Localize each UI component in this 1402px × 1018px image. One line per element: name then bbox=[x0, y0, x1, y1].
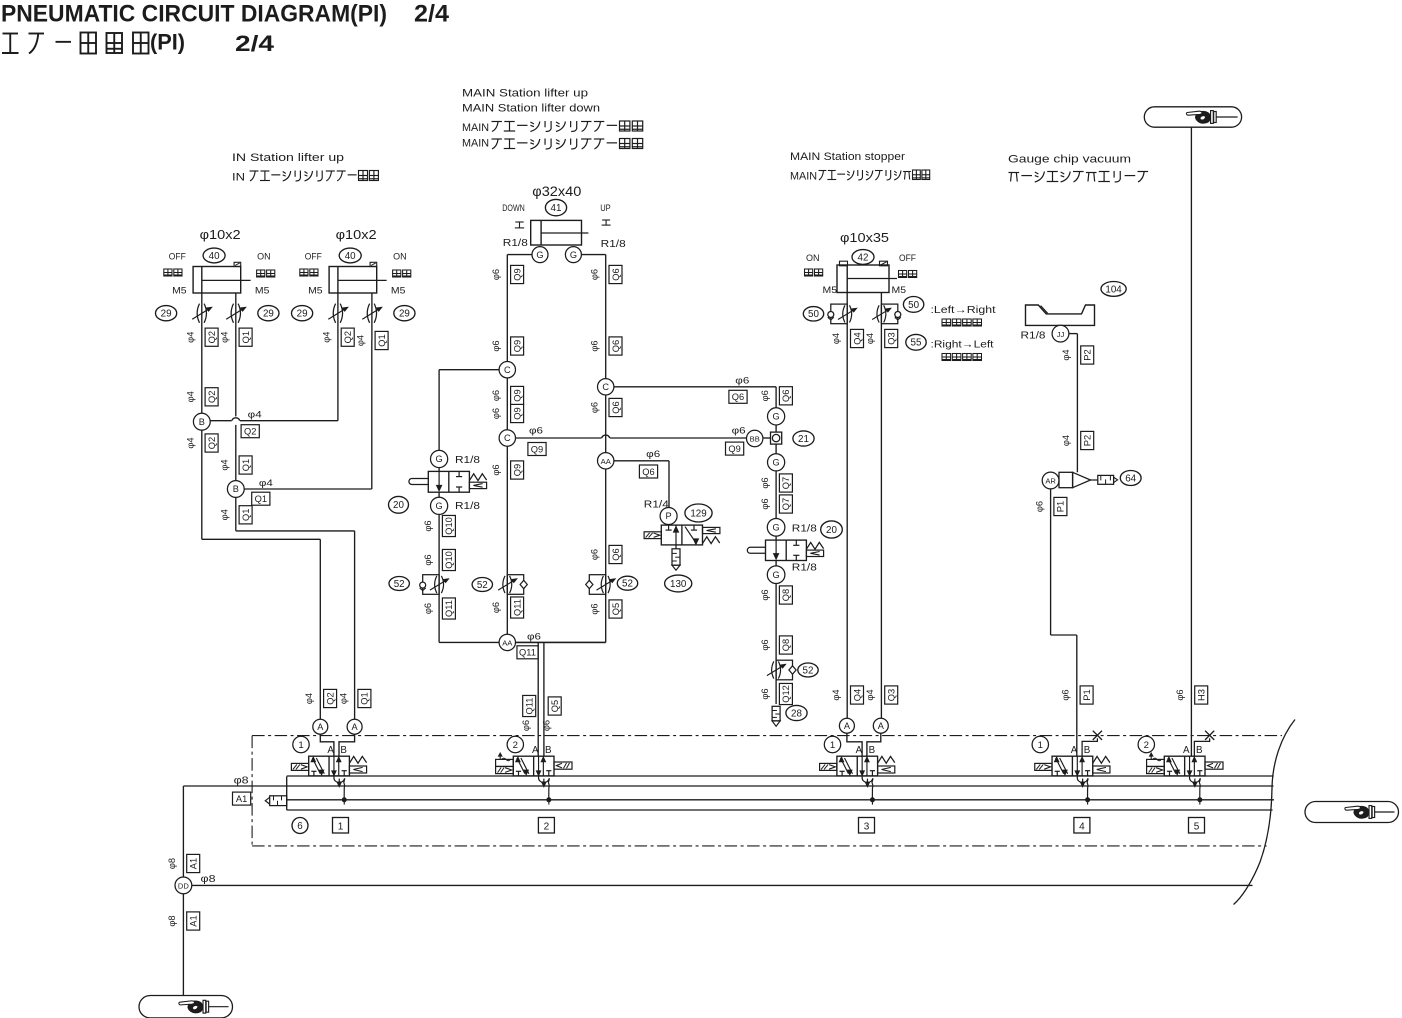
svg-text:φ4: φ4 bbox=[865, 333, 875, 344]
wire bbox=[183, 785, 1273, 787]
node G bbox=[565, 247, 581, 263]
wire bbox=[235, 425, 237, 481]
wire bbox=[371, 293, 373, 340]
svg-text:MAIN Station stopper: MAIN Station stopper bbox=[790, 151, 905, 163]
svg-text:B: B bbox=[233, 484, 239, 494]
tube label Q6 bbox=[609, 265, 622, 283]
node G bbox=[768, 454, 785, 471]
tube label Q8 bbox=[779, 586, 792, 604]
svg-text:Q1: Q1 bbox=[360, 692, 370, 704]
tube label Q9 bbox=[511, 337, 524, 355]
wire bbox=[605, 255, 607, 379]
wire bbox=[775, 387, 777, 408]
wire bbox=[614, 386, 776, 388]
muffler 130 bbox=[672, 545, 680, 570]
svg-text:Q11: Q11 bbox=[444, 600, 454, 617]
svg-text:φ6: φ6 bbox=[732, 426, 746, 437]
svg-text:φ4: φ4 bbox=[1061, 435, 1071, 446]
svg-text:Q9: Q9 bbox=[531, 444, 543, 454]
tube label Q6 bbox=[609, 545, 622, 563]
valve outlet to rail bbox=[1077, 776, 1089, 805]
tube φ6 Q10 bbox=[423, 520, 433, 531]
svg-text:Q11: Q11 bbox=[519, 648, 536, 658]
svg-text:P: P bbox=[666, 511, 672, 521]
tube label Q1 bbox=[239, 456, 252, 474]
svg-text:φ4: φ4 bbox=[248, 410, 263, 421]
flow control valve 50 bbox=[872, 304, 901, 324]
shuttle valve node bbox=[771, 432, 782, 444]
svg-text:Q12: Q12 bbox=[781, 685, 791, 703]
tube label Q7 bbox=[779, 474, 792, 492]
solenoid valve 129 bbox=[644, 525, 720, 545]
svg-text:φ10x35: φ10x35 bbox=[840, 230, 889, 245]
svg-text:φ4: φ4 bbox=[1061, 349, 1071, 360]
svg-text:φ6: φ6 bbox=[423, 603, 433, 614]
wire bbox=[516, 437, 602, 439]
return spring bbox=[1093, 756, 1110, 763]
node G bbox=[431, 497, 448, 514]
svg-text:φ6: φ6 bbox=[760, 477, 770, 488]
label circle (55) bbox=[906, 334, 926, 350]
svg-text:M5: M5 bbox=[172, 286, 187, 297]
svg-text:Q6: Q6 bbox=[732, 392, 744, 402]
svg-text:B: B bbox=[869, 745, 876, 756]
svg-text:φ6: φ6 bbox=[521, 720, 531, 731]
node G bbox=[768, 408, 785, 425]
tube φ4 Q4 bbox=[831, 333, 841, 344]
tube φ6 Q9 bbox=[491, 269, 501, 280]
junction bbox=[870, 798, 874, 802]
tube φ6 Q7 bbox=[760, 498, 770, 509]
svg-text:40: 40 bbox=[345, 251, 356, 262]
pilot solenoid bbox=[1147, 753, 1165, 773]
svg-text:φ6: φ6 bbox=[760, 589, 770, 600]
wire bbox=[506, 255, 508, 362]
wire bbox=[605, 469, 607, 642]
node A bbox=[313, 719, 328, 734]
wire bbox=[235, 340, 237, 416]
svg-text:DOWN: DOWN bbox=[502, 203, 525, 214]
tube label Q1 bbox=[375, 331, 388, 349]
svg-text:20: 20 bbox=[826, 525, 837, 536]
wire bbox=[202, 538, 320, 540]
plugged port (X) above valve bbox=[1194, 731, 1214, 757]
wire bbox=[439, 641, 499, 643]
title line 2 (Japanese) bbox=[3, 33, 19, 35]
svg-text:5: 5 bbox=[1194, 822, 1200, 833]
tube φ6 Q8 bbox=[760, 639, 770, 650]
svg-text:Q1: Q1 bbox=[241, 509, 251, 521]
tube φ6 P1 bbox=[1034, 501, 1044, 512]
svg-text:A1: A1 bbox=[188, 915, 198, 926]
svg-text:φ6: φ6 bbox=[590, 603, 600, 614]
flow control valve 52 bbox=[767, 660, 796, 680]
svg-text:Q9: Q9 bbox=[512, 389, 522, 401]
tube φ6 Q6 bbox=[590, 402, 600, 413]
svg-text:UP: UP bbox=[600, 203, 611, 214]
svg-text:φ4: φ4 bbox=[356, 335, 366, 346]
pilot bbox=[554, 762, 572, 769]
svg-text:φ4: φ4 bbox=[831, 689, 841, 700]
svg-text:Q4: Q4 bbox=[852, 332, 862, 344]
wire bbox=[182, 786, 184, 877]
wire bbox=[506, 378, 508, 430]
svg-text:φ6: φ6 bbox=[760, 639, 770, 650]
tube φ4 Q2 bbox=[186, 391, 196, 402]
label circle (129) bbox=[685, 504, 712, 522]
label circle (52) bbox=[617, 576, 637, 590]
label circle (64) bbox=[1120, 471, 1141, 486]
tube label Q8 bbox=[779, 636, 792, 654]
node AA bbox=[499, 634, 515, 650]
svg-text:DD: DD bbox=[178, 882, 189, 891]
svg-text:AA: AA bbox=[601, 457, 612, 466]
tube φ4 Q3 bbox=[865, 333, 875, 344]
svg-text:φ4: φ4 bbox=[259, 478, 274, 489]
port letters A B bbox=[1071, 745, 1091, 756]
manual valve 20 (stopper) bbox=[747, 540, 823, 560]
wire bbox=[763, 437, 770, 439]
svg-text:Q1: Q1 bbox=[255, 494, 267, 504]
svg-text:φ4: φ4 bbox=[186, 332, 196, 343]
tube φ6 Q11 bbox=[491, 602, 501, 613]
wire bbox=[614, 460, 669, 462]
svg-text:φ8: φ8 bbox=[167, 915, 177, 926]
node G bbox=[767, 519, 785, 537]
wire bbox=[439, 369, 499, 371]
svg-text:OFF: OFF bbox=[305, 252, 322, 263]
svg-text:64: 64 bbox=[1125, 473, 1136, 484]
svg-text:A: A bbox=[844, 721, 851, 731]
svg-text:A: A bbox=[317, 722, 324, 732]
tube label Q9 bbox=[528, 443, 546, 456]
svg-text:29: 29 bbox=[263, 309, 274, 320]
svg-text:M5: M5 bbox=[255, 286, 270, 297]
svg-text:P1: P1 bbox=[1056, 501, 1066, 512]
svg-text:G: G bbox=[436, 454, 443, 464]
tube label Q10 bbox=[442, 515, 455, 536]
svg-text:Q8: Q8 bbox=[781, 639, 791, 651]
pilot solenoid bbox=[496, 753, 514, 773]
tube φ4 Q2 bbox=[186, 437, 196, 448]
svg-text:C: C bbox=[602, 382, 609, 392]
port letters A B bbox=[327, 745, 347, 756]
svg-text:φ10x2: φ10x2 bbox=[200, 227, 241, 242]
node JJ bbox=[1052, 325, 1069, 342]
node G bbox=[532, 247, 548, 263]
tube label Q6 bbox=[609, 398, 622, 416]
label circle (130) bbox=[665, 575, 692, 592]
tube label Q11 bbox=[517, 646, 538, 659]
wire bbox=[775, 584, 777, 705]
svg-text:JJ: JJ bbox=[1057, 330, 1065, 339]
svg-text:3: 3 bbox=[864, 822, 870, 833]
tube label P2 bbox=[1081, 431, 1094, 449]
svg-text:φ6: φ6 bbox=[590, 549, 600, 560]
solenoid valve station 4 bbox=[1035, 756, 1110, 776]
flow control valve 50 bbox=[828, 304, 856, 324]
svg-text:G: G bbox=[773, 523, 780, 533]
tube label A1 bbox=[187, 912, 200, 930]
tube φ6 P1 bbox=[1061, 689, 1071, 700]
svg-text:φ8: φ8 bbox=[167, 858, 177, 869]
svg-text:B: B bbox=[1196, 745, 1203, 756]
station id circle (2) bbox=[1138, 736, 1154, 752]
tube φ4 Q1 bbox=[220, 459, 230, 470]
svg-text:2/4: 2/4 bbox=[414, 1, 449, 28]
wire bbox=[507, 254, 532, 256]
svg-text:R1/8: R1/8 bbox=[1021, 331, 1047, 342]
svg-text:H3: H3 bbox=[1197, 689, 1207, 701]
wire bbox=[880, 293, 882, 719]
wire bbox=[337, 340, 339, 421]
svg-text:Q9: Q9 bbox=[512, 268, 522, 280]
svg-text:φ6: φ6 bbox=[590, 340, 600, 351]
label circle (41) bbox=[545, 199, 566, 215]
svg-text:φ6: φ6 bbox=[760, 498, 770, 509]
svg-text:φ6: φ6 bbox=[1175, 689, 1185, 700]
svg-text:φ32x40: φ32x40 bbox=[532, 184, 581, 199]
tube φ4 Q1 bbox=[220, 332, 230, 343]
solenoid bbox=[820, 763, 837, 770]
wire jump over B1 line bbox=[232, 418, 240, 421]
svg-text:52: 52 bbox=[803, 665, 814, 676]
svg-text:A: A bbox=[352, 722, 359, 732]
section label Japanese bbox=[1009, 171, 1149, 182]
tube label Q2 bbox=[205, 434, 218, 452]
tube label Q6 bbox=[609, 337, 622, 355]
muffler 28 bbox=[772, 706, 780, 726]
tube label Q10 bbox=[442, 549, 455, 570]
svg-text:P2: P2 bbox=[1083, 349, 1093, 360]
svg-text:MAIN Station lifter up: MAIN Station lifter up bbox=[462, 88, 588, 100]
svg-text:MAIN: MAIN bbox=[462, 122, 489, 134]
svg-text:P2: P2 bbox=[1083, 435, 1093, 446]
label circle (50) bbox=[803, 307, 823, 321]
label circle (104) bbox=[1101, 282, 1126, 297]
svg-text:MAIN Station lifter down: MAIN Station lifter down bbox=[462, 103, 600, 115]
svg-text::Right→Left: :Right→Left bbox=[931, 340, 994, 351]
svg-text:M5: M5 bbox=[823, 285, 838, 296]
solenoid bbox=[291, 763, 308, 770]
tube φ6 Q9 bbox=[491, 340, 501, 351]
station id circle (2) bbox=[507, 736, 523, 752]
tube label Q6 bbox=[779, 387, 792, 405]
svg-text:M5: M5 bbox=[892, 285, 907, 296]
svg-text:IN: IN bbox=[232, 172, 245, 184]
svg-text:R1/8: R1/8 bbox=[455, 501, 481, 512]
wire jump over right chain bbox=[602, 435, 610, 438]
svg-text:Q9: Q9 bbox=[728, 444, 740, 454]
svg-text:G: G bbox=[773, 412, 780, 422]
svg-text:Q1: Q1 bbox=[241, 459, 251, 471]
wire bbox=[775, 425, 777, 432]
node C bbox=[598, 379, 614, 395]
pilot bbox=[1205, 762, 1223, 769]
manifold end plug bbox=[265, 796, 286, 806]
node A bbox=[839, 718, 854, 733]
wire bbox=[1076, 334, 1078, 473]
wire bbox=[543, 642, 545, 756]
tube label Q9 bbox=[511, 461, 524, 479]
wire bbox=[1051, 634, 1077, 636]
svg-text:Q6: Q6 bbox=[611, 401, 621, 413]
svg-text:R1/8: R1/8 bbox=[792, 563, 818, 574]
svg-text:Q11: Q11 bbox=[525, 698, 535, 715]
svg-text:Q6: Q6 bbox=[611, 268, 621, 280]
svg-text:φ6: φ6 bbox=[491, 340, 501, 351]
svg-text:A1: A1 bbox=[188, 858, 198, 869]
tube label P1 bbox=[1080, 686, 1093, 704]
svg-text:Q1: Q1 bbox=[241, 331, 251, 343]
wire bbox=[244, 488, 372, 490]
valve outlet to rail bbox=[862, 776, 874, 805]
wire bbox=[775, 471, 777, 518]
svg-text:Q5: Q5 bbox=[611, 603, 621, 615]
tube φ4 Q4 bbox=[831, 689, 841, 700]
tube φ4 Q2 bbox=[322, 332, 332, 343]
flow control valve 52 (pilot) bbox=[420, 575, 448, 595]
node AA bbox=[598, 453, 614, 469]
svg-text:130: 130 bbox=[670, 579, 687, 590]
vacuum pad 104 bbox=[1026, 305, 1095, 325]
wire bbox=[240, 420, 338, 422]
svg-text:ON: ON bbox=[257, 252, 271, 263]
svg-text:Q6: Q6 bbox=[611, 548, 621, 560]
tube label Q11 bbox=[523, 695, 536, 716]
node G bbox=[767, 566, 785, 584]
svg-text:29: 29 bbox=[297, 309, 308, 320]
svg-text:52: 52 bbox=[394, 579, 405, 590]
svg-text:MAIN: MAIN bbox=[462, 138, 489, 150]
svg-text:Q2: Q2 bbox=[244, 427, 256, 437]
svg-text:Q11: Q11 bbox=[512, 599, 522, 616]
tube label Q7 bbox=[779, 495, 792, 513]
svg-text:φ4: φ4 bbox=[220, 509, 230, 520]
svg-text:1: 1 bbox=[1038, 740, 1043, 751]
station id circle (1) bbox=[1032, 736, 1048, 752]
svg-text:OFF: OFF bbox=[899, 253, 916, 264]
label circle (52) bbox=[798, 663, 818, 677]
tube φ4 Q2 bbox=[304, 693, 314, 704]
wire bbox=[775, 561, 777, 566]
reference pointer (right) bbox=[1305, 802, 1399, 823]
svg-text:A: A bbox=[532, 745, 539, 756]
svg-text:4: 4 bbox=[1079, 822, 1085, 833]
wire: A into valve1 port A bbox=[320, 734, 334, 756]
svg-text:φ6: φ6 bbox=[590, 402, 600, 413]
tube size phi6 pair bbox=[521, 720, 551, 731]
wire bbox=[354, 531, 356, 719]
svg-text:φ4: φ4 bbox=[865, 689, 875, 700]
wire bbox=[236, 530, 355, 532]
tube label Q11 bbox=[511, 597, 524, 618]
tube φ4 P2 bbox=[1061, 435, 1071, 446]
label circle (29) bbox=[156, 306, 177, 321]
flow control valve bbox=[226, 304, 245, 323]
svg-text:Q2: Q2 bbox=[207, 391, 217, 403]
svg-text:φ4: φ4 bbox=[322, 332, 332, 343]
wire bbox=[371, 340, 373, 489]
svg-text:C: C bbox=[504, 365, 511, 375]
svg-text:Gauge chip vacuum: Gauge chip vacuum bbox=[1008, 154, 1131, 166]
return spring bbox=[878, 756, 895, 763]
wire bbox=[192, 884, 1253, 886]
manifold base block bbox=[287, 776, 1274, 810]
svg-text:129: 129 bbox=[690, 508, 706, 519]
regulator / check valve 64 bbox=[1059, 472, 1118, 487]
svg-text:29: 29 bbox=[161, 309, 172, 320]
return spring bbox=[349, 756, 366, 763]
tube label Q2 bbox=[205, 388, 218, 406]
svg-text:OFF: OFF bbox=[169, 252, 186, 263]
svg-text:φ6: φ6 bbox=[735, 376, 749, 387]
svg-text:ON: ON bbox=[393, 252, 407, 263]
tube φ6 Q10 bbox=[423, 554, 433, 565]
wire: A into valve1 port B bbox=[339, 734, 355, 756]
flow control valve bbox=[328, 304, 347, 323]
svg-text:2: 2 bbox=[1144, 740, 1149, 751]
svg-text:104: 104 bbox=[1105, 284, 1122, 295]
svg-text:B: B bbox=[199, 417, 205, 427]
manifold enclosure (dash-dot) bbox=[252, 736, 1282, 846]
tube label Q1 bbox=[358, 689, 371, 707]
wire bbox=[210, 420, 231, 422]
label circle (40) bbox=[339, 248, 361, 263]
solenoid valve station 2 bbox=[496, 753, 572, 776]
wire bbox=[668, 461, 670, 508]
port letters A B bbox=[1183, 745, 1203, 756]
svg-text:R1/8: R1/8 bbox=[792, 524, 818, 535]
svg-text:IN Station lifter up: IN Station lifter up bbox=[232, 152, 344, 164]
wire bbox=[516, 641, 606, 643]
svg-text:MAIN: MAIN bbox=[790, 171, 817, 183]
svg-text:Q6: Q6 bbox=[781, 390, 791, 402]
solenoid valve station 1 bbox=[291, 756, 366, 776]
svg-text:φ4: φ4 bbox=[304, 693, 314, 704]
wire bbox=[438, 492, 440, 497]
wire bbox=[337, 293, 339, 340]
wire bbox=[201, 293, 203, 340]
wire: A into valve3 port B bbox=[867, 733, 881, 756]
svg-text:AR: AR bbox=[1045, 477, 1056, 486]
junction bbox=[547, 798, 551, 802]
station id circle (1) bbox=[824, 736, 840, 752]
svg-text:1: 1 bbox=[298, 740, 303, 751]
svg-text:50: 50 bbox=[908, 300, 919, 311]
tube label H3 bbox=[1195, 686, 1208, 704]
manual valve 20 (bypass) bbox=[409, 471, 487, 492]
label circle (29) bbox=[258, 306, 279, 321]
wire bbox=[1060, 324, 1062, 326]
svg-text:Q6: Q6 bbox=[642, 467, 654, 477]
svg-text:R1/8: R1/8 bbox=[455, 455, 481, 466]
tube label Q1 bbox=[239, 506, 252, 524]
svg-text:40: 40 bbox=[209, 251, 220, 262]
svg-text:φ6: φ6 bbox=[491, 464, 501, 475]
svg-text:42: 42 bbox=[858, 252, 869, 263]
tube label Q9 bbox=[726, 442, 744, 455]
wire bbox=[775, 536, 777, 540]
svg-text:φ6: φ6 bbox=[1034, 501, 1044, 512]
svg-text:φ6: φ6 bbox=[491, 269, 501, 280]
svg-text:2: 2 bbox=[544, 822, 550, 833]
label circle (42) bbox=[852, 250, 874, 265]
flow control valve bbox=[192, 304, 211, 323]
svg-text:ON: ON bbox=[806, 253, 820, 264]
tube φ6 Q6 bbox=[760, 390, 770, 401]
svg-text:(PI): (PI) bbox=[150, 30, 185, 55]
